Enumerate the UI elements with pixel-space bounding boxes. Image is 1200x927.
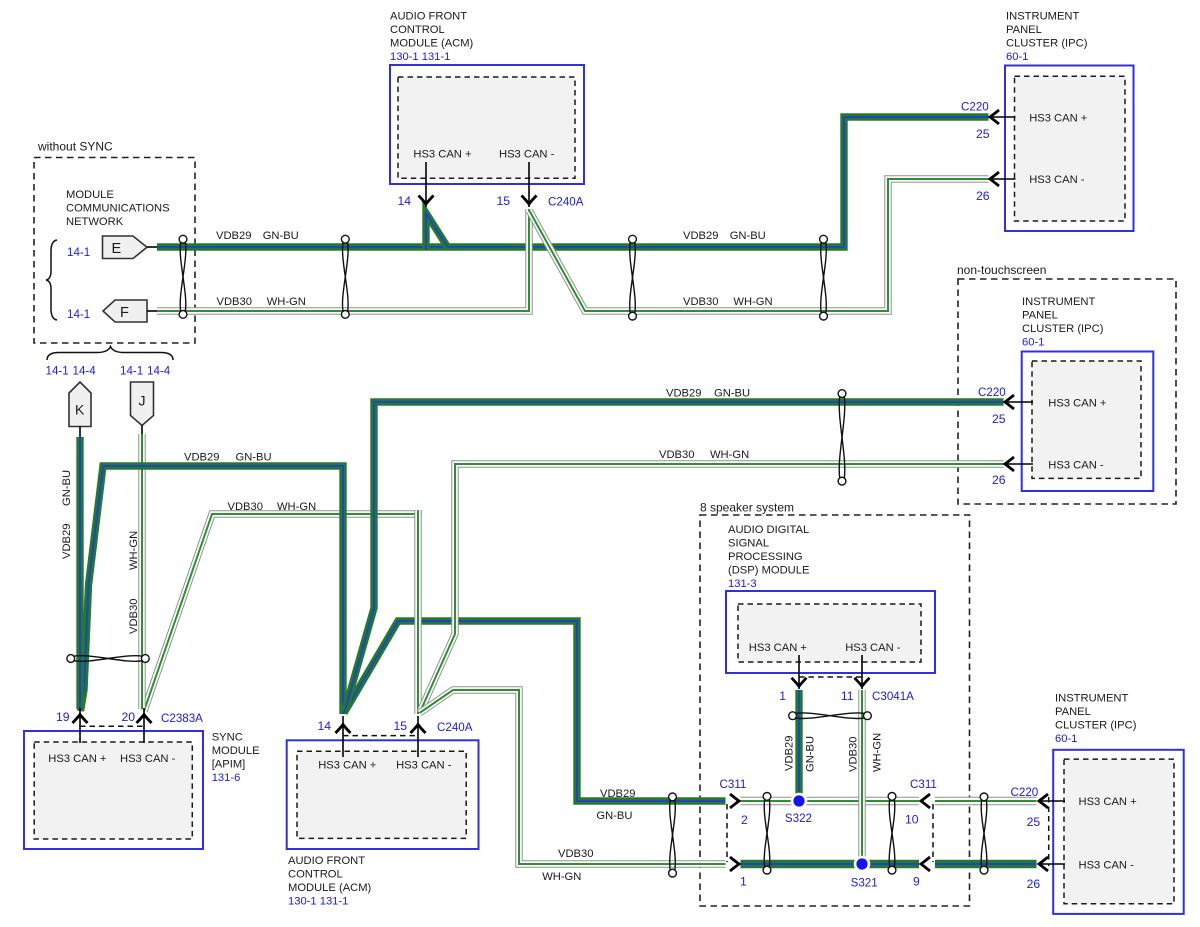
svg-text:9: 9: [913, 875, 920, 889]
svg-text:AUDIO FRONT: AUDIO FRONT: [288, 855, 365, 867]
dashed box: 8 speaker system group: [700, 515, 970, 906]
splice S322: [791, 793, 808, 810]
svg-text:131-3: 131-3: [728, 578, 757, 590]
svg-text:WH-GN: WH-GN: [277, 501, 316, 513]
pin 14 lead (ACM bottom): [342, 716, 344, 757]
svg-text:S321: S321: [851, 877, 878, 890]
connector C3041A dashed line: [799, 676, 862, 678]
svg-text:14-1: 14-1: [67, 308, 90, 321]
svg-text:(DSP) MODULE: (DSP) MODULE: [728, 565, 809, 577]
pin 15 lead (ACM bottom): [417, 716, 419, 757]
svg-text:GN-BU: GN-BU: [805, 736, 817, 772]
svg-text:VDB29: VDB29: [784, 736, 796, 771]
svg-text:HS3 CAN -: HS3 CAN -: [396, 760, 452, 772]
svg-text:26: 26: [976, 189, 990, 203]
svg-text:C3041A: C3041A: [872, 690, 914, 703]
wire VDB29 GN-BU: ACM pin 14 to C311 pin 2: [344, 621, 726, 801]
connector C2383A dashed line: [80, 725, 144, 727]
arrow into DSP pin 1: [792, 678, 807, 687]
connector F: [103, 300, 147, 322]
dashed box: non-touchscreen group: [958, 279, 1176, 504]
pin 25 lead (IPC bottom): [1039, 800, 1065, 802]
splice S321: [854, 856, 871, 873]
arrow into IPC pin 25: [990, 110, 999, 124]
twisted pair symbol: [820, 235, 828, 320]
wire VDB30 WH-GN: connector J to SYNC pin 20: [138, 434, 145, 709]
svg-text:VDB29: VDB29: [216, 230, 251, 242]
svg-text:CLUSTER (IPC): CLUSTER (IPC): [1006, 38, 1088, 50]
svg-text:14-4: 14-4: [73, 365, 97, 378]
svg-text:60-1: 60-1: [1006, 51, 1028, 63]
svg-text:C2383A: C2383A: [161, 712, 203, 725]
dashed box: without SYNC group: [34, 158, 195, 344]
pin 14 lead (ACM top): [425, 162, 427, 207]
twisted pair symbol: [888, 793, 896, 874]
svg-text:C240A: C240A: [437, 721, 473, 734]
wire VDB30 WH-GN: SYNC pin 20 toward ACM pin 15 (bottom): [144, 514, 422, 711]
arrow into IPC pin 26: [990, 172, 999, 186]
svg-text:GN-BU: GN-BU: [236, 452, 272, 464]
svg-text:NETWORK: NETWORK: [66, 216, 124, 228]
wire VDB29 GN-BU riser to ACM pin 14: [426, 213, 448, 250]
svg-text:VDB29: VDB29: [61, 524, 73, 559]
svg-text:GN-BU: GN-BU: [730, 230, 766, 242]
svg-text:WH-GN: WH-GN: [872, 733, 884, 772]
svg-text:F: F: [120, 305, 129, 321]
module box IPC (top right): [1005, 66, 1134, 232]
svg-text:INSTRUMENT: INSTRUMENT: [1006, 11, 1080, 23]
svg-text:VDB30: VDB30: [848, 737, 860, 772]
svg-text:SYNC: SYNC: [212, 732, 243, 744]
wire GN-BU: C311 pin 1 to S321 to C311 pin 9: [741, 860, 920, 868]
svg-text:S322: S322: [785, 812, 812, 825]
twisted pair symbol: [669, 793, 677, 877]
svg-text:non-touchscreen: non-touchscreen: [957, 263, 1046, 277]
svg-text:PANEL: PANEL: [1055, 706, 1091, 718]
svg-text:25: 25: [1027, 815, 1041, 829]
svg-text:WH-GN: WH-GN: [267, 296, 306, 308]
wire WH-GN: C311 pin 10 to C220 pin 25: [935, 797, 1037, 805]
pin 20 lead (SYNC): [143, 708, 145, 743]
wire VDB29 GN-BU: SYNC pin 19 to ACM pin 14 (bottom): [81, 466, 344, 714]
svg-text:14-1: 14-1: [67, 246, 90, 259]
svg-text:PROCESSING: PROCESSING: [728, 551, 803, 563]
wire GN-BU: C311 pin 9 to C220 pin 26: [935, 860, 1037, 868]
module box ACM (bottom): [287, 740, 479, 849]
module box ACM (top): [390, 65, 584, 184]
twisted pair symbol: [763, 793, 771, 874]
overbrace over connectors K and J: [47, 347, 173, 361]
arrow into C311 pin 9: [921, 857, 930, 871]
svg-text:VDB30: VDB30: [683, 296, 718, 308]
svg-text:VDB30: VDB30: [558, 848, 593, 860]
arrow into IPC pin 26 (bottom): [1039, 857, 1048, 871]
svg-text:60-1: 60-1: [1055, 733, 1077, 745]
twisted pair symbol: [179, 235, 187, 318]
svg-text:[APIM]: [APIM]: [212, 759, 246, 771]
svg-text:E: E: [112, 241, 122, 257]
svg-text:VDB29: VDB29: [184, 452, 219, 464]
svg-text:AUDIO FRONT: AUDIO FRONT: [390, 11, 467, 23]
arrow into ACM pin 14: [419, 196, 434, 205]
pin 26 lead (IPC non-touch): [1005, 463, 1033, 465]
svg-text:19: 19: [56, 710, 70, 724]
svg-text:WH-GN: WH-GN: [733, 296, 772, 308]
twisted pair symbol: [67, 655, 149, 663]
wire VDB30 WH-GN: DSP pin 11 to splice S321: [858, 690, 865, 864]
svg-text:VDB30: VDB30: [128, 599, 140, 634]
svg-text:WH-GN: WH-GN: [710, 449, 749, 461]
svg-text:11: 11: [841, 689, 854, 703]
arrow into C311 pin 10: [921, 794, 930, 808]
wire WH-GN: C311 pin 2 to S322 to C311 pin 10: [741, 797, 920, 805]
twisted pair symbol: [629, 235, 637, 320]
arrow into SYNC pin 19: [73, 715, 88, 724]
svg-text:SIGNAL: SIGNAL: [728, 538, 769, 550]
lead from connector K: [79, 427, 81, 438]
svg-text:COMMUNICATIONS: COMMUNICATIONS: [66, 203, 170, 215]
svg-text:VDB29: VDB29: [666, 388, 701, 400]
connector E: [103, 236, 148, 259]
svg-text:CONTROL: CONTROL: [390, 24, 445, 36]
svg-text:26: 26: [1027, 877, 1041, 891]
svg-text:MODULE: MODULE: [212, 745, 260, 757]
svg-text:CLUSTER (IPC): CLUSTER (IPC): [1055, 720, 1137, 732]
svg-text:PANEL: PANEL: [1022, 310, 1058, 322]
module box IPC (bottom right): [1053, 750, 1184, 914]
svg-text:C311: C311: [720, 778, 747, 791]
svg-text:HS3 CAN -: HS3 CAN -: [120, 753, 176, 765]
wire VDB30 WH-GN: ACM pin 15 to IPC (non-touchscreen) C220 pin 26: [420, 464, 1004, 712]
svg-text:15: 15: [393, 719, 407, 733]
svg-text:14-1: 14-1: [46, 365, 69, 378]
svg-text:25: 25: [992, 412, 1006, 426]
svg-text:14-4: 14-4: [147, 365, 171, 378]
svg-text:GN-BU: GN-BU: [596, 810, 632, 822]
svg-text:K: K: [75, 402, 85, 418]
svg-text:HS3 CAN +: HS3 CAN +: [749, 642, 807, 654]
svg-text:C220: C220: [1011, 786, 1039, 799]
svg-text:C220: C220: [961, 101, 989, 114]
svg-text:VDB29: VDB29: [683, 230, 718, 242]
svg-text:HS3 CAN -: HS3 CAN -: [1079, 860, 1135, 872]
module box IPC (non-touchscreen): [1022, 352, 1154, 492]
pin 26 lead (IPC top): [990, 178, 1016, 180]
svg-text:VDB30: VDB30: [659, 449, 694, 461]
svg-text:MODULE (ACM): MODULE (ACM): [288, 882, 372, 894]
svg-text:14: 14: [317, 719, 331, 733]
svg-text:20: 20: [121, 710, 135, 724]
connector K: [69, 382, 91, 427]
svg-text:1: 1: [740, 875, 747, 889]
svg-text:131-6: 131-6: [212, 772, 241, 784]
connector C311 (right) dashed line: [932, 804, 934, 862]
svg-text:AUDIO DIGITAL: AUDIO DIGITAL: [728, 524, 809, 536]
twisted pair symbol: [838, 390, 846, 485]
svg-text:HS3 CAN -: HS3 CAN -: [845, 642, 901, 654]
pin 19 lead (SYNC): [79, 708, 81, 743]
wire VDB30 WH-GN riser into ACM pin 15 (bottom): [414, 510, 421, 714]
svg-text:WH-GN: WH-GN: [128, 531, 140, 570]
wire VDB30 WH-GN: connector F to ACM pin 15: [157, 209, 529, 311]
svg-text:15: 15: [496, 194, 510, 208]
svg-text:INSTRUMENT: INSTRUMENT: [1055, 693, 1129, 705]
twisted pair symbol: [789, 712, 872, 720]
svg-text:WH-GN: WH-GN: [542, 871, 581, 883]
svg-text:8 speaker system: 8 speaker system: [700, 501, 794, 515]
svg-text:GN-BU: GN-BU: [61, 470, 73, 506]
connector J: [131, 382, 154, 426]
wire VDB29 GN-BU: connector E to ACM pin 14 to IPC C220 pin 25: [157, 117, 989, 247]
arrow into IPC pin 25 (non-touch): [1005, 395, 1014, 409]
connector C220 dashed line: [1048, 797, 1050, 866]
arrow into DSP pin 11: [855, 678, 870, 687]
pin 11 lead (DSP): [861, 655, 863, 689]
svg-text:14: 14: [397, 194, 411, 208]
svg-text:MODULE: MODULE: [66, 189, 114, 201]
pin 25 lead (IPC top): [990, 116, 1016, 118]
pin 26 lead (IPC bottom): [1039, 863, 1065, 865]
wire VDB30 WH-GN: ACM pin 15 to IPC C220 pin 26: [530, 179, 989, 311]
svg-text:CLUSTER (IPC): CLUSTER (IPC): [1022, 323, 1104, 335]
svg-text:VDB30: VDB30: [228, 501, 263, 513]
svg-text:HS3 CAN +: HS3 CAN +: [1048, 398, 1106, 410]
svg-text:1: 1: [779, 689, 786, 703]
lead from connector E: [147, 246, 157, 248]
svg-text:130-1 131-1: 130-1 131-1: [288, 896, 348, 908]
twisted pair symbol: [980, 793, 988, 874]
module box DSP: [726, 591, 935, 673]
wire VDB29 GN-BU: ACM pin 14 to IPC (non-touchscreen) C220 pin 25: [345, 402, 1004, 712]
svg-text:25: 25: [976, 127, 990, 141]
arrow into IPC pin 25 (bottom): [1039, 794, 1048, 808]
svg-text:VDB29: VDB29: [600, 788, 635, 800]
svg-text:GN-BU: GN-BU: [263, 230, 299, 242]
svg-text:C220: C220: [978, 386, 1006, 399]
svg-text:60-1: 60-1: [1022, 337, 1044, 349]
lead from connector J: [141, 426, 143, 435]
svg-text:CONTROL: CONTROL: [288, 869, 343, 881]
arrow into IPC pin 26 (non-touch): [1005, 457, 1014, 471]
svg-text:10: 10: [905, 813, 919, 827]
twisted pair symbol: [341, 235, 349, 318]
svg-text:PANEL: PANEL: [1006, 24, 1042, 36]
svg-text:C240A: C240A: [548, 196, 584, 209]
svg-text:GN-BU: GN-BU: [714, 388, 750, 400]
svg-text:HS3 CAN +: HS3 CAN +: [413, 149, 471, 161]
svg-text:HS3 CAN -: HS3 CAN -: [1048, 460, 1104, 472]
svg-text:VDB30: VDB30: [217, 296, 252, 308]
arrow into ACM pin 15: [522, 196, 537, 205]
svg-text:J: J: [139, 393, 146, 409]
svg-text:C311: C311: [910, 778, 937, 791]
svg-text:26: 26: [992, 473, 1006, 487]
wire VDB30 WH-GN: ACM pin 15 to C311 pin 1: [420, 690, 726, 864]
pin 25 lead (IPC non-touch): [1005, 401, 1033, 403]
pin 1 lead (DSP): [798, 655, 800, 689]
pin 15 lead (ACM top): [528, 162, 530, 207]
svg-text:INSTRUMENT: INSTRUMENT: [1022, 296, 1096, 308]
svg-text:HS3 CAN +: HS3 CAN +: [48, 753, 106, 765]
arrow into SYNC pin 20: [137, 715, 152, 724]
brace (left curly): [46, 240, 57, 320]
arrow into C311 pin 1: [730, 857, 739, 871]
svg-text:HS3 CAN +: HS3 CAN +: [1029, 113, 1087, 125]
arrow into ACM pin 15 (bottom): [411, 725, 426, 734]
wire VDB29 GN-BU: connector K to SYNC pin 19: [76, 437, 83, 709]
lead from connector F: [147, 310, 157, 312]
svg-text:HS3 CAN +: HS3 CAN +: [1079, 796, 1137, 808]
svg-text:14-1: 14-1: [120, 365, 143, 378]
module box SYNC APIM: [24, 731, 203, 849]
arrow into ACM pin 14 (bottom): [336, 725, 351, 734]
arrow into C311 pin 2: [730, 794, 739, 808]
svg-text:2: 2: [741, 813, 748, 827]
wire VDB29 GN-BU: DSP pin 1 to splice S322: [795, 690, 802, 801]
connector C240A dashed line: [343, 735, 418, 737]
svg-text:without SYNC: without SYNC: [37, 140, 113, 154]
svg-text:MODULE (ACM): MODULE (ACM): [390, 38, 474, 50]
svg-text:HS3 CAN -: HS3 CAN -: [1029, 174, 1085, 186]
svg-text:HS3 CAN +: HS3 CAN +: [318, 760, 376, 772]
svg-text:130-1 131-1: 130-1 131-1: [390, 51, 450, 63]
connector C311 (left) dashed line: [726, 804, 728, 862]
svg-text:HS3 CAN -: HS3 CAN -: [499, 149, 555, 161]
